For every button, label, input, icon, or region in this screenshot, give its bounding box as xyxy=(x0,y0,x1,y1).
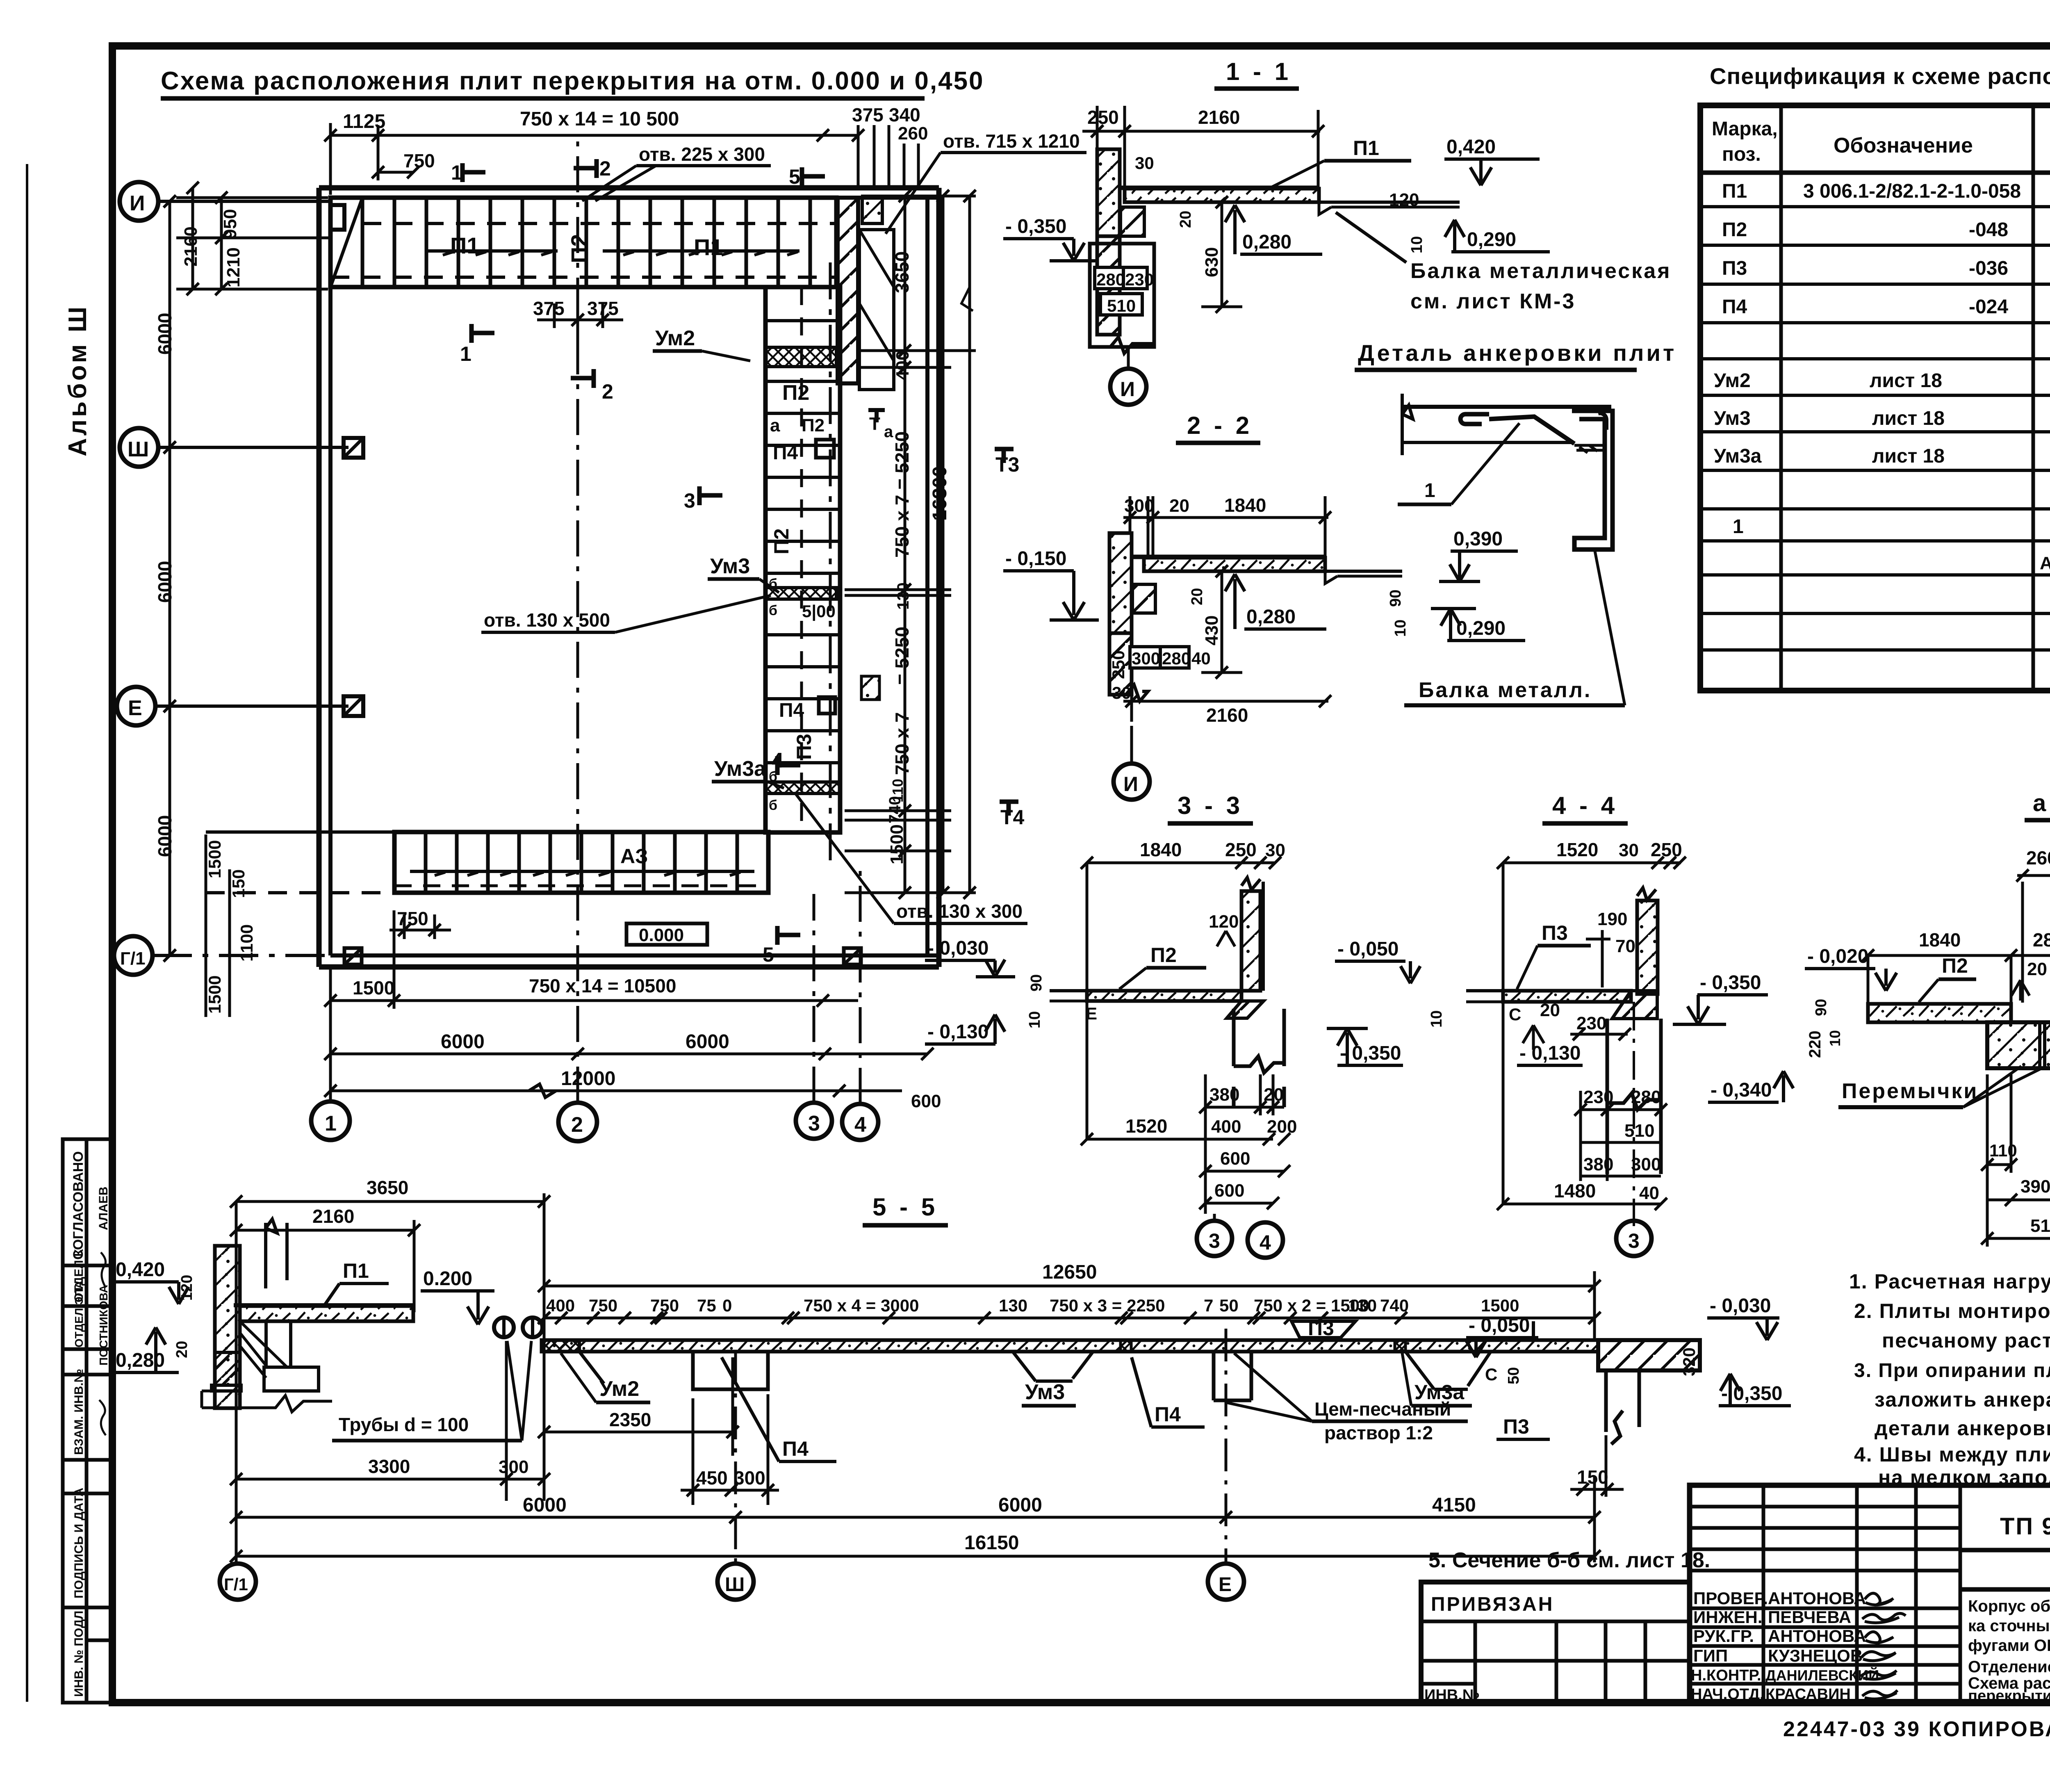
svg-text:150: 150 xyxy=(229,869,248,898)
svg-text:3650: 3650 xyxy=(367,1177,408,1198)
svg-text:0: 0 xyxy=(722,1296,732,1315)
svg-text:3: 3 xyxy=(684,489,695,512)
svg-text:отв. 715 x 1210: отв. 715 x 1210 xyxy=(943,130,1080,152)
svg-text:ПРОВЕР.: ПРОВЕР. xyxy=(1693,1589,1768,1608)
svg-text:П4: П4 xyxy=(782,1437,809,1460)
svg-text:см. лист КМ-3: см. лист КМ-3 xyxy=(1410,290,1576,313)
svg-text:300: 300 xyxy=(1124,496,1154,516)
svg-text:поз.: поз. xyxy=(1722,144,1761,165)
svg-text:6000: 6000 xyxy=(154,313,175,355)
svg-text:- 0,050: - 0,050 xyxy=(1469,1315,1530,1336)
svg-text:2 - 2: 2 - 2 xyxy=(1187,412,1253,439)
svg-text:1100: 1100 xyxy=(237,924,256,962)
svg-text:20: 20 xyxy=(1177,211,1194,228)
svg-text:- 0,130: - 0,130 xyxy=(1519,1042,1581,1064)
svg-text:- 0,130: - 0,130 xyxy=(927,1021,989,1043)
anchor rod with hook xyxy=(1460,414,1489,424)
svg-text:190: 190 xyxy=(1597,909,1627,929)
wall xyxy=(1097,149,1120,236)
signatures xyxy=(1861,1593,1906,1699)
right vertical dims xyxy=(845,190,976,899)
svg-text:а: а xyxy=(2033,790,2046,816)
svg-text:120: 120 xyxy=(1209,912,1239,932)
svg-text:С: С xyxy=(1509,1005,1521,1024)
svg-text:20: 20 xyxy=(1540,1000,1560,1020)
svg-text:ПЕВЧЕВА: ПЕВЧЕВА xyxy=(1768,1607,1851,1627)
slab edge lines xyxy=(1402,405,1611,409)
svg-text:6000: 6000 xyxy=(441,1031,485,1053)
svg-text:2350: 2350 xyxy=(609,1409,651,1430)
svg-text:Т4: Т4 xyxy=(1000,806,1025,829)
slabs xyxy=(1868,1004,2011,1022)
svg-text:220: 220 xyxy=(1806,1031,1824,1058)
svg-text:30: 30 xyxy=(1619,840,1639,860)
svg-text:И: И xyxy=(1123,773,1138,796)
plate band bottom (A3) xyxy=(206,832,768,893)
svg-text:750: 750 xyxy=(650,1296,679,1315)
svg-text:Ум2: Ум2 xyxy=(1714,370,1751,392)
svg-text:АНТОНОВА: АНТОНОВА xyxy=(1768,1589,1866,1608)
svg-text:ИНВ.№: ИНВ.№ xyxy=(1424,1687,1480,1704)
section 4-4 xyxy=(1428,792,1793,1256)
svg-text:2. Плиты монтировать по све: 2. Плиты монтировать по свежеуложенному … xyxy=(1854,1300,2050,1322)
svg-text:Обозначение: Обозначение xyxy=(1834,134,1973,157)
svg-text:130: 130 xyxy=(894,582,912,610)
svg-text:отв. 130 x 300: отв. 130 x 300 xyxy=(896,901,1023,922)
svg-text:5|00: 5|00 xyxy=(802,602,836,621)
svg-text:ТП 902-5-47.87: ТП 902-5-47.87 xyxy=(2000,1513,2050,1540)
svg-text:2160: 2160 xyxy=(181,226,201,267)
svg-text:750 x 7 = 5250: 750 x 7 = 5250 xyxy=(891,431,913,558)
pier xyxy=(1987,1022,2050,1068)
svg-text:Ум3а: Ум3а xyxy=(714,757,766,781)
svg-text:740: 740 xyxy=(886,796,904,823)
svg-text:Деталь анкеровки плит: Деталь анкеровки плит xyxy=(1358,340,1676,366)
svg-text:320: 320 xyxy=(1679,1347,1699,1376)
svg-text:16300: 16300 xyxy=(929,466,951,521)
svg-text:детали анкеровки плит.: детали анкеровки плит. xyxy=(1875,1417,2050,1440)
svg-text:90: 90 xyxy=(1028,974,1045,992)
svg-text:10: 10 xyxy=(1408,236,1426,253)
svg-text:раствор 1:2: раствор 1:2 xyxy=(1324,1422,1433,1443)
svg-text:- 0,030: - 0,030 xyxy=(1710,1295,1771,1317)
svg-text:40: 40 xyxy=(1191,649,1211,668)
svg-text:5. Сечение б-б см. лист 18.: 5. Сечение б-б см. лист 18. xyxy=(1428,1548,1710,1572)
svg-text:- 0,050: - 0,050 xyxy=(1337,938,1399,960)
svg-text:б: б xyxy=(769,603,777,618)
svg-text:10: 10 xyxy=(1428,1010,1445,1028)
svg-text:1. Расчетная нагрузка на пе: 1. Расчетная нагрузка на перекрытие - 4,… xyxy=(1849,1270,2050,1293)
svg-text:ПОДПИСЬ И ДАТА: ПОДПИСЬ И ДАТА xyxy=(72,1488,86,1598)
svg-text:КРАСАВИН: КРАСАВИН xyxy=(1765,1686,1851,1703)
section 3-3 xyxy=(925,792,1420,1258)
svg-text:300: 300 xyxy=(1132,649,1160,668)
svg-text:- 0,350: - 0,350 xyxy=(1700,972,1761,994)
svg-text:3: 3 xyxy=(1628,1229,1640,1252)
svg-text:1500: 1500 xyxy=(1481,1296,1519,1315)
svg-text:6000: 6000 xyxy=(154,561,175,603)
svg-text:П1: П1 xyxy=(343,1259,369,1282)
svg-text:510: 510 xyxy=(1624,1121,1654,1141)
slab xyxy=(542,1340,1598,1352)
piers under slab xyxy=(693,1352,1251,1400)
svg-text:4150: 4150 xyxy=(1432,1494,1476,1516)
svg-text:а: а xyxy=(884,423,893,441)
svg-text:СОГЛАСОВАНО: СОГЛАСОВАНО xyxy=(71,1151,86,1260)
svg-text:1: 1 xyxy=(325,1112,337,1135)
section a-a xyxy=(1805,790,2050,1279)
svg-text:ОТДЕЛ ЭЛА: ОТДЕЛ ЭЛА xyxy=(73,1281,85,1347)
svg-text:30: 30 xyxy=(1135,153,1154,173)
svg-text:300: 300 xyxy=(499,1457,528,1477)
svg-text:90: 90 xyxy=(1813,999,1830,1016)
svg-text:120: 120 xyxy=(1389,190,1419,210)
svg-text:АНТОНОВА: АНТОНОВА xyxy=(1768,1626,1866,1646)
svg-text:ВЗАМ. ИНВ.№: ВЗАМ. ИНВ.№ xyxy=(72,1369,86,1455)
svg-text:4 - 4: 4 - 4 xyxy=(1552,792,1618,819)
svg-text:5: 5 xyxy=(789,165,800,188)
wall lower part and foundation xyxy=(215,1352,240,1385)
svg-text:0,290: 0,290 xyxy=(1456,618,1506,639)
svg-text:20: 20 xyxy=(1189,588,1206,605)
svg-text:1520: 1520 xyxy=(1125,1115,1167,1137)
trapezoid pits xyxy=(579,1352,1491,1389)
channel xyxy=(1572,411,1613,549)
svg-text:250: 250 xyxy=(1651,839,1682,860)
svg-text:ИНЖЕН.: ИНЖЕН. xyxy=(1693,1607,1763,1627)
svg-text:375: 375 xyxy=(533,298,565,319)
svg-text:260: 260 xyxy=(898,123,928,144)
svg-text:750 x 4 = 3000: 750 x 4 = 3000 xyxy=(804,1296,919,1315)
axis circles bottom xyxy=(311,1101,878,1141)
concrete pier block at strip bottom right xyxy=(861,676,879,700)
svg-text:6000: 6000 xyxy=(998,1494,1042,1516)
section 1-1 xyxy=(1003,58,1550,405)
svg-text:Т3: Т3 xyxy=(995,453,1019,476)
svg-text:1: 1 xyxy=(451,161,462,184)
notes xyxy=(1849,1270,2050,1489)
svg-text:П4: П4 xyxy=(1722,296,1747,318)
svg-text:П4: П4 xyxy=(773,442,798,464)
svg-text:340: 340 xyxy=(889,104,920,125)
svg-text:250: 250 xyxy=(1087,107,1119,128)
svg-text:750 x 14 = 10 500: 750 x 14 = 10 500 xyxy=(520,108,679,130)
svg-text:230: 230 xyxy=(1125,270,1154,289)
svg-text:30: 30 xyxy=(1265,840,1285,860)
svg-text:Е: Е xyxy=(1219,1574,1232,1596)
svg-text:120: 120 xyxy=(178,1275,196,1301)
privyazan table xyxy=(1421,1582,1690,1703)
svg-text:40: 40 xyxy=(1639,1183,1659,1203)
svg-text:Ум2: Ум2 xyxy=(655,326,695,350)
svg-text:лист 18: лист 18 xyxy=(1870,370,1942,392)
left vertical dims xyxy=(164,182,330,962)
svg-text:600: 600 xyxy=(1220,1149,1250,1169)
svg-text:- 0,020: - 0,020 xyxy=(1807,946,1868,967)
svg-text:250: 250 xyxy=(1109,650,1128,679)
svg-text:Г/1: Г/1 xyxy=(224,1575,248,1594)
svg-text:Трубы d = 100: Трубы d = 100 xyxy=(339,1414,469,1435)
svg-text:600: 600 xyxy=(1214,1181,1244,1201)
svg-text:0.200: 0.200 xyxy=(423,1268,472,1290)
svg-text:Балка металл.: Балка металл. xyxy=(1419,678,1592,702)
svg-text:песчаному раствору.: песчаному раствору. xyxy=(1882,1329,2050,1352)
svg-text:- 0,030: - 0,030 xyxy=(927,937,989,959)
svg-text:4: 4 xyxy=(854,1113,866,1137)
svg-text:Н.КОНТР.: Н.КОНТР. xyxy=(1691,1667,1761,1684)
bottom dims of plan xyxy=(206,834,934,1103)
svg-text:3300: 3300 xyxy=(368,1456,410,1477)
svg-text:4: 4 xyxy=(1260,1231,1271,1254)
svg-text:0,280: 0,280 xyxy=(1242,231,1291,253)
svg-text:б: б xyxy=(769,798,777,813)
svg-text:1500: 1500 xyxy=(205,976,224,1014)
svg-text:750: 750 xyxy=(589,1296,617,1315)
svg-text:400: 400 xyxy=(893,351,913,381)
svg-text:1480: 1480 xyxy=(1554,1180,1596,1202)
svg-text:750 x 7: 750 x 7 xyxy=(891,712,913,775)
svg-text:1500: 1500 xyxy=(353,977,394,999)
svg-text:перекрытия на отм. 0.000 и 0: перекрытия на отм. 0.000 и 0,450 xyxy=(1968,1687,2050,1705)
svg-text:10: 10 xyxy=(1026,1011,1043,1028)
top dimensions xyxy=(324,123,864,195)
svg-text:110: 110 xyxy=(1989,1141,2017,1160)
svg-text:РУК.ГР.: РУК.ГР. xyxy=(1693,1626,1754,1646)
walls xyxy=(319,188,939,967)
svg-text:С: С xyxy=(1485,1365,1497,1384)
svg-text:1840: 1840 xyxy=(1140,839,1182,860)
svg-text:Корпус обезвоживания осад-: Корпус обезвоживания осад- xyxy=(1968,1597,2050,1615)
svg-text:П3: П3 xyxy=(1722,258,1747,279)
svg-text:фугами ОГШ 1001.К-01: фугами ОГШ 1001.К-01 xyxy=(1968,1637,2050,1655)
svg-text:50: 50 xyxy=(1219,1296,1239,1315)
svg-text:12000: 12000 xyxy=(561,1068,615,1090)
svg-text:П3: П3 xyxy=(793,734,815,760)
slab plate xyxy=(1125,189,1319,202)
svg-text:Спецификация к схеме располож: Спецификация к схеме расположения плит п… xyxy=(1710,63,2050,89)
svg-text:- 0,340: - 0,340 xyxy=(1711,1079,1772,1101)
svg-text:390: 390 xyxy=(2020,1176,2050,1197)
svg-text:- 0,350: - 0,350 xyxy=(1340,1042,1401,1064)
axis circles left xyxy=(114,182,158,975)
svg-text:Е: Е xyxy=(128,696,142,720)
svg-text:1: 1 xyxy=(1424,480,1435,502)
svg-text:П4: П4 xyxy=(779,700,804,721)
svg-text:2: 2 xyxy=(571,1113,583,1137)
svg-text:4. Швы между плитами тщател: 4. Швы между плитами тщательно забить бе… xyxy=(1854,1443,2050,1466)
svg-text:16150: 16150 xyxy=(964,1532,1019,1554)
svg-text:0,290: 0,290 xyxy=(1467,229,1516,251)
svg-text:ГИП: ГИП xyxy=(1693,1646,1728,1665)
svg-text:П4: П4 xyxy=(1155,1403,1181,1426)
svg-text:0,390: 0,390 xyxy=(1453,528,1503,550)
svg-text:3 006.1-2/82.1-2-1.0-058: 3 006.1-2/82.1-2-1.0-058 xyxy=(1803,180,2021,202)
specification table xyxy=(1700,63,2050,691)
svg-text:= 5250: = 5250 xyxy=(891,627,913,685)
svg-text:950: 950 xyxy=(220,209,240,239)
svg-text:20: 20 xyxy=(1264,1085,1284,1105)
svg-text:200: 200 xyxy=(1267,1117,1297,1137)
svg-text:Ум3: Ум3 xyxy=(710,554,750,578)
svg-text:И: И xyxy=(1120,378,1135,401)
corner block xyxy=(862,198,882,223)
svg-text:280: 280 xyxy=(1096,270,1125,289)
right beam block xyxy=(1598,1340,1700,1370)
svg-text:Перемычки: Перемычки xyxy=(1842,1079,1978,1103)
svg-text:280: 280 xyxy=(1162,649,1191,668)
svg-text:П1: П1 xyxy=(1353,137,1379,160)
svg-text:П2: П2 xyxy=(802,415,825,435)
svg-text:20: 20 xyxy=(1169,496,1189,516)
375/375 under band xyxy=(537,291,623,340)
svg-text:0,280: 0,280 xyxy=(116,1350,165,1371)
svg-text:Альбом Ш: Альбом Ш xyxy=(64,304,92,456)
svg-text:750: 750 xyxy=(397,908,428,929)
svg-text:380: 380 xyxy=(1209,1085,1239,1105)
svg-text:заложить анкера с приваркой: заложить анкера с приваркой их к балкам … xyxy=(1875,1388,2050,1411)
svg-text:75: 75 xyxy=(697,1296,716,1315)
svg-text:630: 630 xyxy=(1202,247,1222,277)
svg-text:НАЧ.ОТД.: НАЧ.ОТД. xyxy=(1691,1686,1764,1703)
svg-text:1520: 1520 xyxy=(1556,839,1598,860)
svg-text:-024: -024 xyxy=(1969,296,2008,318)
svg-text:3: 3 xyxy=(1209,1229,1220,1252)
svg-text:0,420: 0,420 xyxy=(1446,136,1496,158)
svg-text:Отделение флокулянта.: Отделение флокулянта. xyxy=(1968,1658,2050,1676)
svg-text:0.000: 0.000 xyxy=(639,925,684,945)
svg-text:22447-03 39 КОПИРОВАЛ: ХЮППЕ: 22447-03 39 КОПИРОВАЛ: ХЮППЕНЕН xyxy=(1783,1717,2050,1741)
svg-text:300: 300 xyxy=(734,1467,765,1489)
svg-text:П2: П2 xyxy=(1942,954,1968,977)
svg-text:380: 380 xyxy=(1583,1154,1613,1174)
svg-text:1: 1 xyxy=(460,342,471,365)
svg-text:230: 230 xyxy=(1583,1087,1613,1107)
svg-text:отв. 130 x 500: отв. 130 x 500 xyxy=(484,609,610,631)
svg-text:П3: П3 xyxy=(1542,921,1568,944)
section 2-2 xyxy=(1003,412,1402,800)
svg-text:Схема расположения плит: Схема расположения плит перекрытия на от… xyxy=(161,67,984,95)
svg-text:400: 400 xyxy=(1211,1117,1241,1137)
svg-text:750 x 3 = 2250: 750 x 3 = 2250 xyxy=(1050,1296,1165,1315)
svg-text:375: 375 xyxy=(587,298,619,319)
svg-text:лист 18: лист 18 xyxy=(1872,445,1945,467)
svg-text:КУЗНЕЦОВ: КУЗНЕЦОВ xyxy=(1768,1646,1863,1665)
svg-text:отв. 225 x 300: отв. 225 x 300 xyxy=(639,144,765,165)
svg-text:10: 10 xyxy=(1827,1030,1843,1046)
svg-text:10: 10 xyxy=(1392,620,1409,637)
svg-text:7: 7 xyxy=(1204,1296,1213,1315)
svg-text:-048: -048 xyxy=(1969,219,2008,241)
svg-text:П1: П1 xyxy=(694,234,723,260)
svg-text:П1: П1 xyxy=(450,233,479,258)
svg-text:600: 600 xyxy=(911,1091,941,1111)
svg-text:- 0,350: - 0,350 xyxy=(1005,216,1066,237)
svg-text:3: 3 xyxy=(808,1112,820,1135)
svg-text:5 - 5: 5 - 5 xyxy=(872,1193,938,1221)
svg-text:Ш: Ш xyxy=(725,1574,745,1596)
svg-text:2160: 2160 xyxy=(1206,704,1248,726)
svg-text:250: 250 xyxy=(1225,839,1257,860)
svg-text:20: 20 xyxy=(173,1341,191,1358)
svg-text:150: 150 xyxy=(1577,1466,1608,1488)
beam label 1-1 xyxy=(1335,211,1671,313)
svg-text:1125: 1125 xyxy=(343,111,385,132)
svg-text:1840: 1840 xyxy=(1919,929,1961,951)
album label xyxy=(64,304,92,456)
left stamp column xyxy=(63,1139,112,1703)
svg-text:- 0,150: - 0,150 xyxy=(1005,548,1066,570)
svg-text:3. При опирании плит на ме: 3. При опирании плит на металлические ба… xyxy=(1854,1360,2050,1382)
section 5-5 xyxy=(220,1193,1791,1600)
section marks top xyxy=(462,159,825,388)
svg-text:П2: П2 xyxy=(770,528,793,554)
svg-text:Ум3а: Ум3а xyxy=(1714,445,1762,467)
svg-text:Г/1: Г/1 xyxy=(120,948,146,969)
svg-text:70: 70 xyxy=(1615,936,1635,956)
svg-text:130: 130 xyxy=(1348,1296,1377,1315)
svg-text:Ш: Ш xyxy=(128,438,149,461)
left wall detail xyxy=(113,1177,550,1501)
svg-text:2: 2 xyxy=(599,157,611,180)
svg-text:Е: Е xyxy=(1086,1004,1097,1023)
svg-text:а: а xyxy=(770,415,780,435)
title block xyxy=(1690,1485,2050,1703)
svg-text:ПРИВЯЗАН: ПРИВЯЗАН xyxy=(1431,1594,1554,1615)
svg-text:Ум3а: Ум3а xyxy=(1414,1381,1465,1404)
svg-text:1: 1 xyxy=(1733,516,1744,538)
svg-text:400: 400 xyxy=(546,1296,575,1315)
svg-text:6000: 6000 xyxy=(686,1031,729,1053)
svg-text:6000: 6000 xyxy=(154,815,175,857)
svg-text:1840: 1840 xyxy=(1224,495,1266,516)
svg-text:375: 375 xyxy=(852,104,884,125)
svg-text:280: 280 xyxy=(2033,929,2050,951)
plate band top xyxy=(330,198,836,287)
svg-text:1210: 1210 xyxy=(223,247,244,287)
svg-text:430: 430 xyxy=(1202,616,1222,645)
svg-text:750 x 14 = 10500: 750 x 14 = 10500 xyxy=(529,975,676,996)
svg-text:Ум2: Ум2 xyxy=(599,1377,639,1401)
svg-text:Ум3: Ум3 xyxy=(1714,408,1751,429)
svg-text:Балка металлическая: Балка металлическая xyxy=(1410,259,1671,283)
svg-text:0,420: 0,420 xyxy=(116,1259,165,1281)
svg-text:450: 450 xyxy=(696,1467,728,1489)
svg-text:5: 5 xyxy=(763,943,774,966)
svg-text:3650: 3650 xyxy=(891,251,913,293)
bottom dims xyxy=(230,1202,1601,1564)
anchor detail xyxy=(1355,340,1676,705)
svg-text:12650: 12650 xyxy=(1042,1261,1097,1283)
svg-text:П2: П2 xyxy=(782,381,809,405)
svg-text:50: 50 xyxy=(1505,1367,1522,1384)
svg-text:П2: П2 xyxy=(1722,219,1747,241)
svg-text:ПОСТНИКОВА: ПОСТНИКОВА xyxy=(97,1285,110,1366)
svg-text:20: 20 xyxy=(2027,959,2047,979)
svg-text:И: И xyxy=(130,192,145,215)
svg-text:2160: 2160 xyxy=(312,1206,354,1227)
svg-text:130: 130 xyxy=(999,1296,1027,1315)
svg-text:3 - 3: 3 - 3 xyxy=(1178,792,1243,819)
svg-text:П2: П2 xyxy=(1150,944,1177,967)
dims top xyxy=(538,1271,1601,1340)
svg-text:АЗ: АЗ xyxy=(620,845,648,868)
svg-text:1 - 1: 1 - 1 xyxy=(1226,58,1291,85)
plates strip vertical xyxy=(765,262,840,861)
svg-text:300: 300 xyxy=(1631,1154,1661,1174)
svg-text:750: 750 xyxy=(403,150,435,171)
svg-text:-036: -036 xyxy=(1969,258,2008,279)
svg-text:Ум3: Ум3 xyxy=(1025,1380,1065,1404)
